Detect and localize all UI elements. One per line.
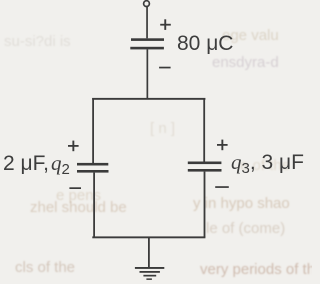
minus sign of C2 [69,187,81,189]
capacitor C3 bottom plate [188,169,222,172]
svg-text:y in hypo shao: y in hypo shao [193,195,290,212]
terminal (open circle) [144,1,150,7]
svg-text:[ n ]: [ n ] [150,120,175,137]
wire: bottom bus to ground [148,237,150,268]
wire: terminal to capacitor C1 top plate [146,7,148,39]
svg-text:cls of the: cls of the [15,259,75,276]
capacitor C1 (80 uC) top plate [131,38,164,41]
svg-text:very periods of the: very periods of the [200,261,312,278]
wire: top bus to capacitor C2 top plate [92,98,94,163]
plus sign of C2 [68,145,79,147]
ground symbol [135,267,164,269]
svg-text:ensdyra-d: ensdyra-d [212,54,279,71]
wire: top bus to capacitor C3 top plate [203,98,205,162]
svg-text:su-si?di is: su-si?di is [4,33,71,50]
svg-text:2 μF,q2: 2 μF,q2 [3,151,70,178]
svg-text:zhel should be: zhel should be [30,199,127,216]
wire: C2 bottom plate to bottom bus [93,173,95,238]
svg-text:80 μC: 80 μC [177,32,233,55]
plus sign of C3 [217,144,228,146]
capacitor C1 bottom plate [130,47,164,50]
minus sign of C3 [215,186,229,188]
plus sign of C1 [160,24,171,26]
bottom bus wire [92,236,205,238]
svg-text:le of (come): le of (come) [206,220,285,237]
wire: C1 bottom plate to top bus [147,49,149,99]
wire: C3 bottom plate to bottom bus [204,172,206,238]
capacitor C3 (3 uF) top plate [188,162,222,165]
top bus wire [92,98,205,100]
capacitor C2 (2 uF) top plate [77,163,108,166]
capacitor C2 bottom plate [77,170,109,173]
minus sign of C1 [159,67,171,69]
